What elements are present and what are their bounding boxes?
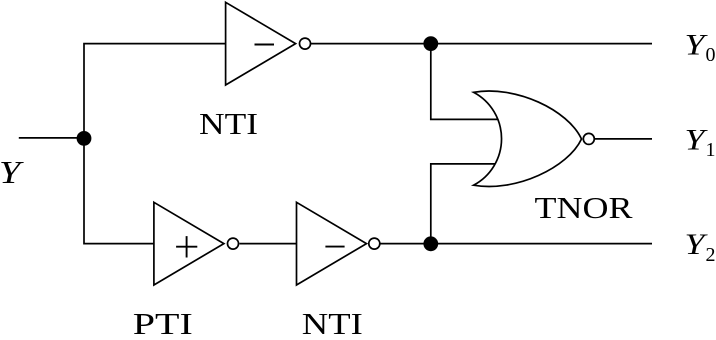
- wire PTI output to NTI2 input: [240, 243, 298, 245]
- minus label inside NTI2: [325, 246, 344, 248]
- bubble TNOR: [583, 133, 594, 144]
- svg-text:2: 2: [706, 244, 716, 266]
- svg-text:0: 0: [706, 44, 716, 66]
- wire main L: top rail, left vertical, bottom rail to PTI: [84, 44, 227, 244]
- bubble PTI: [228, 238, 239, 249]
- svg-text:NTI: NTI: [199, 106, 258, 141]
- buffer PTI triangle: [154, 202, 224, 285]
- inverter NTI2 triangle: [297, 202, 367, 285]
- svg-text:1: 1: [706, 139, 716, 161]
- wire node J3 up to TNOR input 2: [431, 164, 498, 244]
- bubble NTI2: [369, 238, 380, 249]
- wire NTI2 output to Y2: [380, 243, 652, 245]
- plus label inside PTI: [176, 236, 197, 257]
- wire NTI1 output to Y0: [311, 43, 653, 45]
- svg-text:PTI: PTI: [133, 306, 193, 340]
- gate TNOR body: [474, 91, 582, 186]
- svg-text:NTI: NTI: [302, 306, 363, 340]
- wire node J2 down to TNOR input 1: [431, 44, 500, 120]
- node J3 junction dot: [423, 236, 438, 251]
- wire TNOR output to Y1: [595, 138, 652, 140]
- minus label inside NTI1: [255, 44, 275, 46]
- svg-text:TNOR: TNOR: [535, 190, 633, 225]
- node J2 junction dot: [423, 36, 438, 51]
- svg-text:Y: Y: [0, 155, 24, 190]
- bubble NTI1: [300, 38, 311, 49]
- wire input Y: [19, 137, 84, 139]
- node J1 junction dot: [77, 131, 92, 146]
- inverter NTI1 triangle: [226, 2, 296, 85]
